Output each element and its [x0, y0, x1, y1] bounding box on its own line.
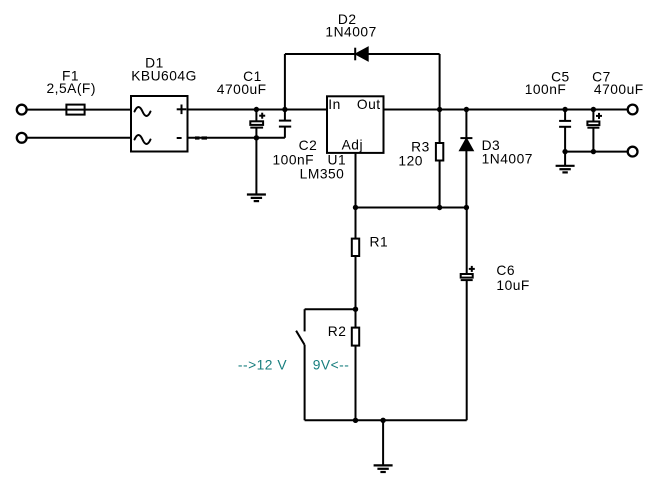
svg-text:2,5A(F): 2,5A(F): [46, 81, 96, 96]
svg-text:Adj: Adj: [342, 138, 363, 153]
pin stub minus: [195, 136, 200, 139]
bridge rectifier D1: [131, 96, 188, 152]
wire D2 top horizontal: [285, 53, 440, 55]
svg-text:10uF: 10uF: [496, 278, 529, 293]
capacitor C5: [559, 110, 571, 152]
svg-text:1N4007: 1N4007: [325, 25, 376, 40]
svg-text:LM350: LM350: [300, 166, 345, 181]
capacitor C7: [587, 110, 602, 152]
wire R2 to bottom rail: [355, 346, 357, 421]
wire R1 to R2: [355, 256, 357, 328]
wire bottom rail: [305, 419, 467, 421]
wire minus rail: [188, 137, 285, 139]
capacitor C1: [250, 110, 265, 138]
junction C2 top: [282, 107, 287, 112]
svg-text:120: 120: [398, 153, 423, 168]
svg-text:4700uF: 4700uF: [594, 82, 644, 97]
wire D2 right vertical: [439, 54, 441, 110]
svg-text:100nF: 100nF: [525, 82, 567, 97]
svg-text:1N4007: 1N4007: [482, 151, 533, 166]
regulator U1 LM350: [327, 96, 384, 153]
diode D3: [460, 110, 472, 208]
terminal output top: [628, 105, 638, 115]
junction C5 top: [562, 107, 567, 112]
resistor R2: [352, 328, 359, 346]
junction C1 bottom: [254, 135, 259, 140]
svg-text:U1: U1: [328, 152, 347, 167]
terminal output bottom: [628, 147, 638, 157]
svg-text:KBU604G: KBU604G: [131, 69, 197, 84]
svg-text:4700uF: 4700uF: [217, 82, 267, 97]
svg-text:R1: R1: [370, 234, 389, 249]
junction D3 bottom: [464, 205, 469, 210]
switch S1: [296, 309, 355, 420]
capacitor C2: [279, 110, 291, 138]
ground below C5: [556, 152, 575, 173]
junction C5 bottom: [562, 149, 567, 154]
terminal input top: [17, 105, 27, 115]
ground bottom: [374, 420, 393, 472]
junction adj: [353, 205, 358, 210]
wire input bottom: [27, 137, 131, 139]
wire plus rail: [188, 109, 328, 111]
wire adj pin vertical: [355, 153, 357, 208]
terminal input bottom: [17, 133, 27, 143]
svg-text:C2: C2: [299, 138, 318, 153]
junction ground bottom: [380, 418, 385, 423]
wire D2 left vertical: [284, 54, 286, 110]
junction R3 top: [437, 107, 442, 112]
resistor R3: [436, 110, 443, 208]
fuse F1: [66, 105, 84, 115]
wire out rail: [384, 109, 628, 111]
svg-text:-->12 V: -->12 V: [238, 358, 287, 373]
junction R2 bottom: [353, 418, 358, 423]
junction C1 top: [254, 107, 259, 112]
diode D2: [355, 48, 368, 61]
svg-text:C6: C6: [496, 263, 515, 278]
wire R1 branch: [355, 208, 357, 239]
junction C7 bottom: [591, 149, 596, 154]
resistor R1: [352, 239, 359, 256]
svg-text:R2: R2: [328, 324, 347, 339]
wire input top: [27, 109, 131, 111]
ground below C1: [247, 138, 266, 201]
junction C7 top: [591, 107, 596, 112]
wire adj rail: [356, 207, 467, 209]
junction R3 bottom: [437, 205, 442, 210]
wire bottom out rail: [565, 151, 627, 153]
capacitor C6: [461, 208, 475, 421]
svg-text:100nF: 100nF: [272, 152, 314, 167]
svg-text:Out: Out: [357, 97, 381, 112]
svg-text:R3: R3: [411, 139, 430, 154]
junction R2 top: [353, 307, 358, 312]
svg-text:9V<--: 9V<--: [313, 358, 350, 373]
junction D3 top: [464, 107, 469, 112]
svg-text:In: In: [328, 97, 341, 112]
